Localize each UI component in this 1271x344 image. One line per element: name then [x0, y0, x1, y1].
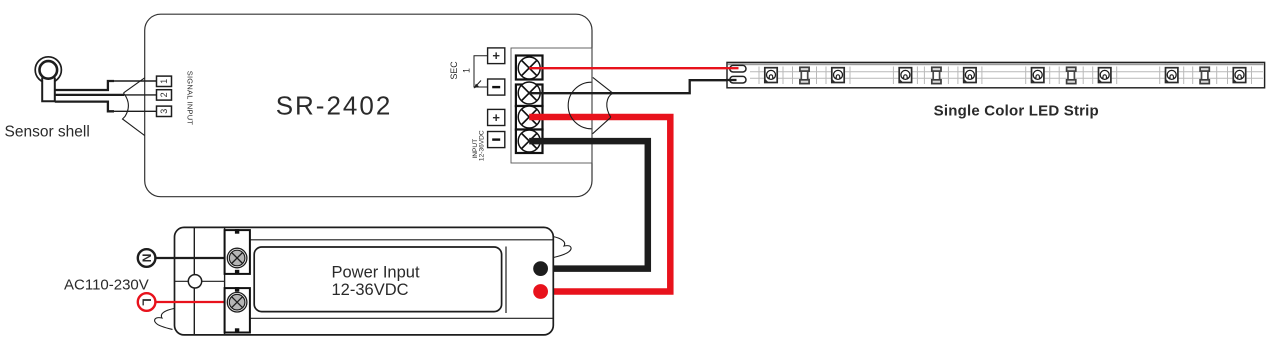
- SEC bracket: [474, 56, 488, 87]
- neutral wire N: [155, 257, 233, 259]
- polarity box - (INPUT): [488, 132, 505, 148]
- screw terminal 4: [518, 130, 540, 152]
- resistor R1: [800, 67, 809, 83]
- strain relief squiggle bottom-left: [155, 309, 174, 330]
- wire tip black on pad: [726, 79, 737, 81]
- svg-text:SR-2402: SR-2402: [276, 91, 393, 121]
- svg-text:Single Color LED Strip: Single Color LED Strip: [934, 102, 1099, 119]
- strain relief squiggle top-right: [553, 237, 571, 258]
- cable bundle symbol (left): [123, 78, 145, 136]
- screw terminal 3: [518, 106, 540, 128]
- wire SEC- black to strip: [529, 80, 737, 93]
- svg-text:L: L: [140, 298, 154, 305]
- screw cell 3: [516, 106, 543, 130]
- screw terminal 2: [518, 82, 540, 104]
- supply divider line A: [193, 227, 195, 335]
- wire INPUT+ thick red: [529, 117, 670, 292]
- solder pad top: [730, 65, 746, 72]
- LED D5: [1032, 68, 1044, 83]
- resistor R3: [1067, 67, 1076, 83]
- LED D1: [765, 68, 777, 83]
- wire INPUT- thick black: [529, 141, 648, 269]
- svg-text:N: N: [140, 254, 154, 263]
- supply screw box 1: [225, 230, 250, 274]
- resistor R4: [1200, 67, 1209, 83]
- LED D3: [899, 68, 911, 83]
- svg-text:Power Input: Power Input: [332, 264, 420, 282]
- svg-text:AC110-230V: AC110-230V: [64, 277, 149, 294]
- supply centerline left: [175, 280, 225, 282]
- DC output dot red: [533, 284, 548, 299]
- svg-text:12-36VDC: 12-36VDC: [332, 281, 409, 299]
- svg-text:1: 1: [159, 79, 169, 84]
- supply label box: [254, 247, 501, 312]
- SEC arrow: [476, 81, 482, 87]
- wire sensor pin2: [55, 94, 124, 96]
- wire SEC+ red to strip: [529, 67, 738, 69]
- supply inner vertical line: [505, 247, 507, 314]
- LED D7: [1166, 68, 1178, 83]
- svg-text:+: +: [492, 48, 500, 63]
- wire sensor pin1: [55, 81, 114, 90]
- N symbol: [138, 249, 156, 267]
- strip traces: [750, 72, 1263, 78]
- terminal block outline: [511, 48, 592, 163]
- svg-text:SEC: SEC: [449, 61, 459, 80]
- svg-text:2: 2: [159, 92, 169, 97]
- polarity box - (SEC): [488, 79, 505, 95]
- LED D2: [832, 68, 844, 83]
- supply inner bottom line: [250, 317, 553, 319]
- sensor shell body: [35, 57, 61, 102]
- power supply outline: [175, 227, 554, 335]
- supply screw box 2: [225, 288, 250, 332]
- resistor R2: [932, 67, 941, 83]
- supply screw 2: [227, 292, 247, 312]
- LED D4: [964, 68, 976, 83]
- wire tip red on pad: [726, 67, 739, 69]
- solder pad bottom: [730, 76, 746, 83]
- terminal box 1: [157, 76, 172, 86]
- svg-text:3: 3: [159, 109, 169, 114]
- polarity box + (SEC): [488, 48, 505, 64]
- live wire L red: [155, 301, 233, 303]
- mounting hole: [188, 275, 201, 288]
- polarity box + (INPUT): [488, 109, 505, 125]
- controller box SR-2402: [145, 14, 592, 197]
- L symbol: [138, 293, 156, 311]
- LED D6: [1099, 68, 1111, 83]
- DC output dot black: [533, 261, 548, 276]
- supply inner top line: [250, 239, 553, 241]
- screw terminal 1: [518, 57, 540, 79]
- screw cell 1: [516, 56, 543, 80]
- terminal box 2: [157, 90, 172, 100]
- LED D8: [1233, 68, 1245, 83]
- cable bundle symbol (right): [568, 77, 613, 133]
- terminal box 3: [157, 106, 172, 116]
- screw cell 2: [516, 85, 543, 107]
- svg-text:12-36VDC: 12-36VDC: [478, 130, 485, 161]
- svg-text:SIGNAL INPUT: SIGNAL INPUT: [185, 71, 194, 126]
- supply divider line B: [224, 227, 226, 335]
- LED strip outline: [727, 62, 1265, 87]
- supply screw 1: [227, 248, 247, 268]
- screw cell 4: [516, 130, 543, 154]
- svg-text:+: +: [492, 110, 500, 125]
- svg-text:1: 1: [462, 68, 472, 73]
- svg-text:Sensor shell: Sensor shell: [5, 124, 90, 141]
- wire sensor pin3: [55, 102, 114, 112]
- strip top band: [728, 63, 1264, 65]
